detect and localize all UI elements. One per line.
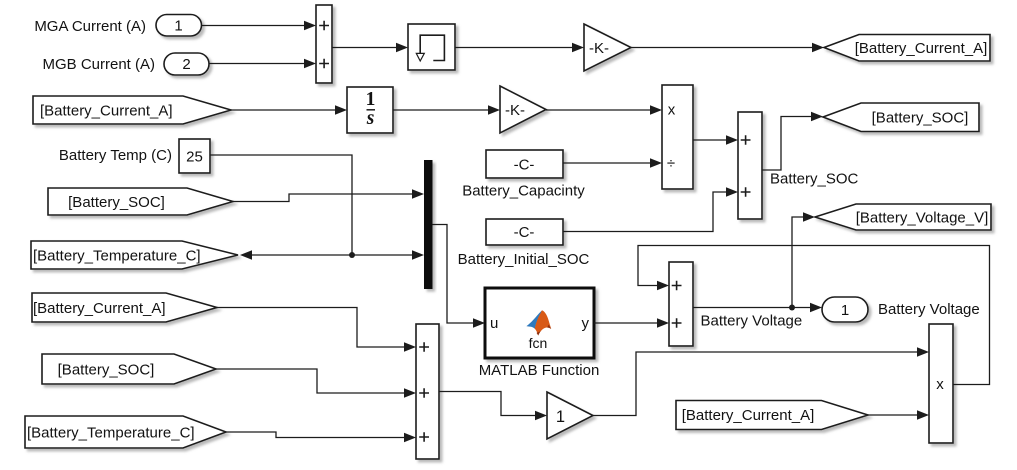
svg-text:1: 1 [174,18,182,35]
wire junction to goto Battery_Temperature_C (leftwards) [240,250,352,259]
mux [424,160,433,289]
wire from F3 to sum S4 input1 [217,308,416,352]
wire from F5 to sum S4 input3 [226,432,416,442]
constant -C- Battery_Initial_SOC [486,219,563,245]
svg-text:-K-: -K- [505,102,525,119]
svg-text:[Battery_SOC]: [Battery_SOC] [58,361,155,378]
from [Battery_Current_A] F1 [33,96,231,124]
svg-text:Battery_SOC: Battery_SOC [770,171,859,188]
svg-text:1: 1 [841,302,849,319]
wire product P1 to sum S2 input1 [693,135,738,144]
wire inport1 to sum S1 [201,21,316,30]
constant -C- Battery_Capacinty [486,150,563,178]
wire gain G1 to goto Battery_Current_A [631,43,824,52]
goto [Battery_Temperature_C] [31,241,238,269]
inport 2 (MGB Current) [164,53,209,75]
svg-text:-K-: -K- [589,40,609,57]
svg-text:[Battery_Temperature_C]: [Battery_Temperature_C] [33,247,201,264]
from [Battery_Current_A] F3 [32,293,217,322]
from [Battery_SOC] F4 [42,354,216,384]
wire constant 25 to junction [210,155,352,255]
svg-text:Battery Voltage: Battery Voltage [878,301,980,318]
svg-text:[Battery_Temperature_C]: [Battery_Temperature_C] [27,424,195,441]
goto [Battery_Current_A] [824,35,990,62]
svg-text:[Battery_SOC]: [Battery_SOC] [872,110,969,127]
svg-text:[Battery_Current_A]: [Battery_Current_A] [40,102,173,119]
outport 1 (Battery Voltage) [822,297,868,322]
wire product P2 loop back to sum S3 input1 [638,246,990,385]
svg-text:Battery_Capacinty: Battery_Capacinty [462,183,585,200]
svg-text:s: s [366,108,375,129]
svg-text:Battery_Initial_SOC: Battery_Initial_SOC [458,251,590,268]
sum S3 [669,262,693,346]
goto [Battery_Voltage_V] [815,204,991,230]
wire -C- initial SOC to sum S2 input2 [563,187,738,231]
gain G3 (1) [547,392,593,439]
wire from F1 to integrator [231,105,347,114]
wire from F6 to product P2 input2 [868,410,929,419]
sum S2 [738,112,762,219]
svg-text:MGB Current (A): MGB Current (A) [42,56,155,73]
MATLAB Function block U1 [485,288,594,358]
junction dot on battery voltage wire [789,305,795,311]
junction dot [349,252,355,258]
sum S1 [316,5,332,83]
gain G1 -K- [584,24,631,71]
wire gain G3 to product P2 input1 [593,347,929,415]
wire memory to gain G1 [455,43,584,52]
wire sum S2 to goto Battery_SOC [762,112,823,170]
wire sum S4 to gain G3 [439,392,547,421]
wire from F4 to sum S4 input2 [216,369,416,398]
svg-text:25: 25 [186,148,203,165]
svg-text:1: 1 [556,408,565,426]
wire -C- capacity to product P1 input2 [563,158,662,167]
svg-text:fcn: fcn [529,335,548,351]
product P2 [929,324,953,443]
wire junction to mux input 2 [352,250,424,259]
svg-text:÷: ÷ [667,155,675,172]
svg-text:x: x [668,102,676,119]
matlab logo [526,311,542,329]
svg-text:-C-: -C- [514,224,535,241]
wire inport2 to sum S1 [209,59,316,68]
sum S4 [416,324,439,459]
svg-text:[Battery_SOC]: [Battery_SOC] [68,194,165,211]
memory block [408,24,455,70]
inport 1 (MGA Current) [156,15,202,37]
integrator 1/s [347,87,393,133]
svg-text:[Battery_Current_A]: [Battery_Current_A] [855,40,988,57]
svg-text:[Battery_Current_A]: [Battery_Current_A] [682,407,815,424]
svg-text:u: u [490,315,498,332]
wire from F2 to mux input 1 [233,189,424,201]
gain G2 -K- [500,86,546,133]
wire sum S3 to outport (with junction) [693,303,822,312]
wire sum S1 to memory [332,43,408,52]
svg-text:y: y [582,315,590,332]
svg-text:[Battery_Current_A]: [Battery_Current_A] [33,300,166,317]
wire gain G2 to product P1 [546,105,662,114]
from [Battery_Temperature_C] F5 [25,416,226,448]
svg-text:Battery Voltage: Battery Voltage [701,312,803,329]
wire junction up to goto Battery_Voltage_V [792,212,815,307]
product P1 (x / div) [662,85,693,189]
constant 25 [179,139,210,173]
svg-text:MGA Current (A): MGA Current (A) [34,18,146,35]
svg-text:MATLAB Function: MATLAB Function [479,362,600,379]
from [Battery_Current_A] F6 [676,401,868,430]
svg-text:x: x [936,376,944,393]
wire fcn y to sum S3 input2 [594,318,669,327]
svg-text:-C-: -C- [514,156,535,173]
goto [Battery_SOC] [823,103,979,132]
svg-text:1: 1 [366,89,376,110]
svg-text:2: 2 [182,56,190,73]
svg-text:Battery Temp (C): Battery Temp (C) [59,147,172,164]
wire integrator to gain G2 [393,105,500,114]
from [Battery_SOC] F2 [48,188,233,215]
wire mux to MATLAB fn input u [433,225,486,328]
svg-text:[Battery_Voltage_V]: [Battery_Voltage_V] [856,209,989,226]
